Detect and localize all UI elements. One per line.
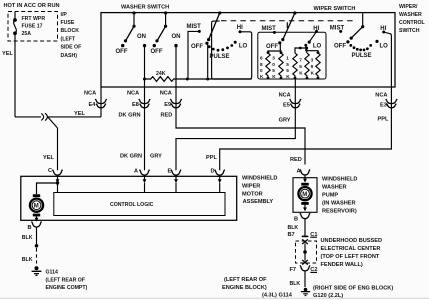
svg-text:NCA: NCA: [375, 92, 387, 98]
svg-text:FENDER WALL): FENDER WALL): [321, 262, 363, 268]
svg-text:K: K: [299, 71, 303, 76]
svg-text:A: A: [297, 168, 301, 174]
svg-text:BLOCK: BLOCK: [61, 28, 80, 34]
svg-text:K: K: [272, 74, 276, 79]
svg-text:ON: ON: [172, 34, 181, 40]
svg-text:OFF: OFF: [334, 43, 346, 49]
svg-text:DK GRN: DK GRN: [120, 154, 142, 160]
svg-text:G120 (2.2L): G120 (2.2L): [313, 293, 343, 299]
svg-text:FUSE 17: FUSE 17: [22, 23, 43, 29]
svg-text:WIPER: WIPER: [242, 183, 260, 189]
svg-text:OFF: OFF: [266, 44, 278, 50]
svg-text:PUMP: PUMP: [322, 193, 338, 199]
svg-text:PPL: PPL: [378, 116, 389, 122]
svg-text:5: 5: [272, 68, 275, 73]
svg-text:B: B: [294, 217, 298, 223]
svg-text:5: 5: [286, 68, 289, 73]
svg-text:BLK: BLK: [22, 235, 33, 241]
svg-text:F7: F7: [290, 267, 297, 273]
svg-text:5: 5: [299, 64, 302, 69]
svg-text:(LEFT: (LEFT: [61, 36, 77, 42]
svg-text:(RIGHT SIDE OF ENG BLOCK): (RIGHT SIDE OF ENG BLOCK): [313, 285, 393, 291]
svg-text:6: 6: [260, 56, 263, 61]
svg-text:BLK: BLK: [290, 281, 301, 287]
svg-text:ENGINE BLOCK): ENGINE BLOCK): [222, 285, 267, 291]
svg-text:(4.3L) G114: (4.3L) G114: [262, 293, 293, 299]
svg-text:K: K: [286, 74, 290, 79]
svg-text:OFF: OFF: [151, 49, 163, 55]
svg-text:3: 3: [272, 56, 275, 61]
svg-text:YEL: YEL: [43, 155, 54, 161]
svg-text:E9: E9: [164, 102, 171, 108]
svg-text:HI: HI: [237, 25, 243, 31]
svg-text:ASSEMBLY: ASSEMBLY: [243, 199, 274, 205]
svg-text:ON: ON: [137, 34, 146, 40]
svg-text:WIPER/: WIPER/: [399, 4, 418, 10]
svg-text:OFF: OFF: [191, 44, 203, 50]
svg-text:I/P: I/P: [61, 12, 68, 18]
svg-text:G114: G114: [46, 269, 59, 275]
svg-text:E: E: [168, 168, 172, 174]
svg-text:WIPER SWITCH: WIPER SWITCH: [314, 6, 356, 12]
svg-text:ELECTRICAL CENTER: ELECTRICAL CENTER: [321, 246, 381, 252]
svg-text:RESERVOIR): RESERVOIR): [322, 209, 357, 215]
svg-text:MIST: MIST: [330, 26, 345, 32]
svg-text:NCA: NCA: [84, 90, 96, 96]
svg-text:OFF: OFF: [116, 49, 128, 55]
svg-text:5: 5: [286, 62, 289, 67]
svg-text:LO: LO: [313, 44, 322, 50]
svg-text:NCA: NCA: [160, 90, 172, 96]
svg-text:1: 1: [286, 56, 289, 61]
svg-text:3: 3: [311, 57, 314, 62]
svg-text:ENGINE COMPT): ENGINE COMPT): [46, 285, 88, 291]
svg-text:LO: LO: [380, 43, 389, 49]
svg-text:YEL: YEL: [2, 51, 13, 57]
svg-text:8: 8: [260, 62, 263, 67]
svg-text:YEL: YEL: [74, 111, 85, 117]
svg-text:0: 0: [260, 68, 263, 73]
svg-text:M: M: [34, 204, 39, 210]
svg-text:PPL: PPL: [206, 155, 217, 161]
svg-text:FRT WPR: FRT WPR: [22, 16, 46, 22]
svg-text:BLK: BLK: [288, 225, 299, 231]
svg-text:DASH): DASH): [61, 53, 78, 59]
svg-text:0: 0: [272, 62, 275, 67]
svg-text:SWITCH: SWITCH: [399, 28, 420, 34]
svg-text:WASHER: WASHER: [322, 184, 347, 190]
svg-text:WINDSHIELD: WINDSHIELD: [242, 175, 277, 181]
svg-text:E3: E3: [380, 103, 387, 109]
svg-text:(TOP OF LEFT FRONT: (TOP OF LEFT FRONT: [321, 254, 380, 260]
svg-text:CONTROL LOGIC: CONTROL LOGIC: [110, 202, 154, 208]
svg-text:GRY: GRY: [150, 154, 162, 160]
svg-text:E5: E5: [283, 103, 290, 109]
svg-text:(LEFT REAR OF: (LEFT REAR OF: [224, 277, 267, 283]
svg-text:FUSE: FUSE: [61, 20, 75, 26]
svg-text:NCA: NCA: [279, 93, 291, 99]
svg-text:MOTOR: MOTOR: [242, 191, 263, 197]
svg-text:B: B: [28, 225, 32, 231]
svg-text:C: C: [48, 168, 52, 174]
svg-text:MIST: MIST: [187, 24, 202, 30]
svg-text:E8: E8: [132, 102, 139, 108]
svg-text:RED: RED: [161, 113, 173, 119]
svg-text:D: D: [211, 168, 215, 174]
svg-text:24K: 24K: [156, 71, 166, 77]
svg-text:(LEFT REAR OF: (LEFT REAR OF: [46, 277, 85, 283]
svg-text:RED: RED: [290, 157, 302, 163]
svg-text:GRY: GRY: [279, 117, 291, 123]
svg-text:E4: E4: [89, 102, 97, 108]
svg-text:WINDSHIELD: WINDSHIELD: [322, 176, 357, 182]
svg-text:WASHER: WASHER: [399, 12, 422, 18]
svg-text:(IN WASHER: (IN WASHER: [322, 201, 356, 207]
svg-text:CONTROL: CONTROL: [399, 20, 425, 26]
svg-text:UNDERHOOD BUSSED: UNDERHOOD BUSSED: [321, 238, 383, 244]
svg-text:BLK: BLK: [22, 257, 33, 263]
svg-text:PULSE: PULSE: [210, 54, 230, 60]
svg-text:A: A: [134, 168, 138, 174]
svg-text:SIDE OF: SIDE OF: [61, 45, 82, 51]
svg-text:PULSE: PULSE: [352, 53, 372, 59]
svg-text:9: 9: [311, 64, 314, 69]
svg-text:WASHER SWITCH: WASHER SWITCH: [121, 5, 169, 11]
svg-text:LO: LO: [239, 43, 248, 49]
svg-text:M: M: [302, 192, 307, 198]
svg-text:B7: B7: [288, 232, 295, 238]
svg-text:MIST: MIST: [262, 26, 277, 32]
svg-text:NCA: NCA: [127, 90, 139, 96]
svg-text:7: 7: [299, 57, 302, 62]
svg-text:HOT IN ACC OR RUN: HOT IN ACC OR RUN: [4, 3, 60, 9]
svg-text:25A: 25A: [22, 31, 32, 37]
svg-text:DK GRN: DK GRN: [119, 113, 141, 119]
